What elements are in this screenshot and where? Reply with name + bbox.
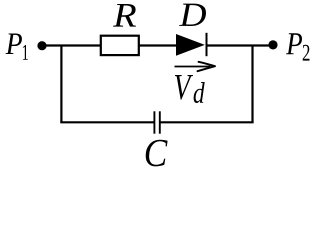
label Vd <box>175 75 205 103</box>
diode D <box>176 33 207 56</box>
label C <box>146 140 168 167</box>
wire bottom left to capacitor <box>60 121 154 123</box>
Vd arrow (voltage reference) <box>175 62 216 71</box>
label P1 <box>6 34 28 60</box>
capacitor C <box>154 111 159 133</box>
label D <box>179 4 206 26</box>
node P1 terminal dot <box>37 41 46 50</box>
wire right vertical branch <box>251 46 253 123</box>
label R <box>113 4 136 27</box>
wire left vertical branch <box>60 46 62 123</box>
wire P1 dot to resistor <box>42 44 101 46</box>
resistor R <box>101 36 139 55</box>
wire diode to P2 dot <box>207 44 274 46</box>
label P2 <box>286 33 310 60</box>
wire resistor to diode <box>139 44 177 46</box>
wire capacitor to bottom right <box>160 121 254 123</box>
node P2 terminal dot <box>268 40 277 49</box>
